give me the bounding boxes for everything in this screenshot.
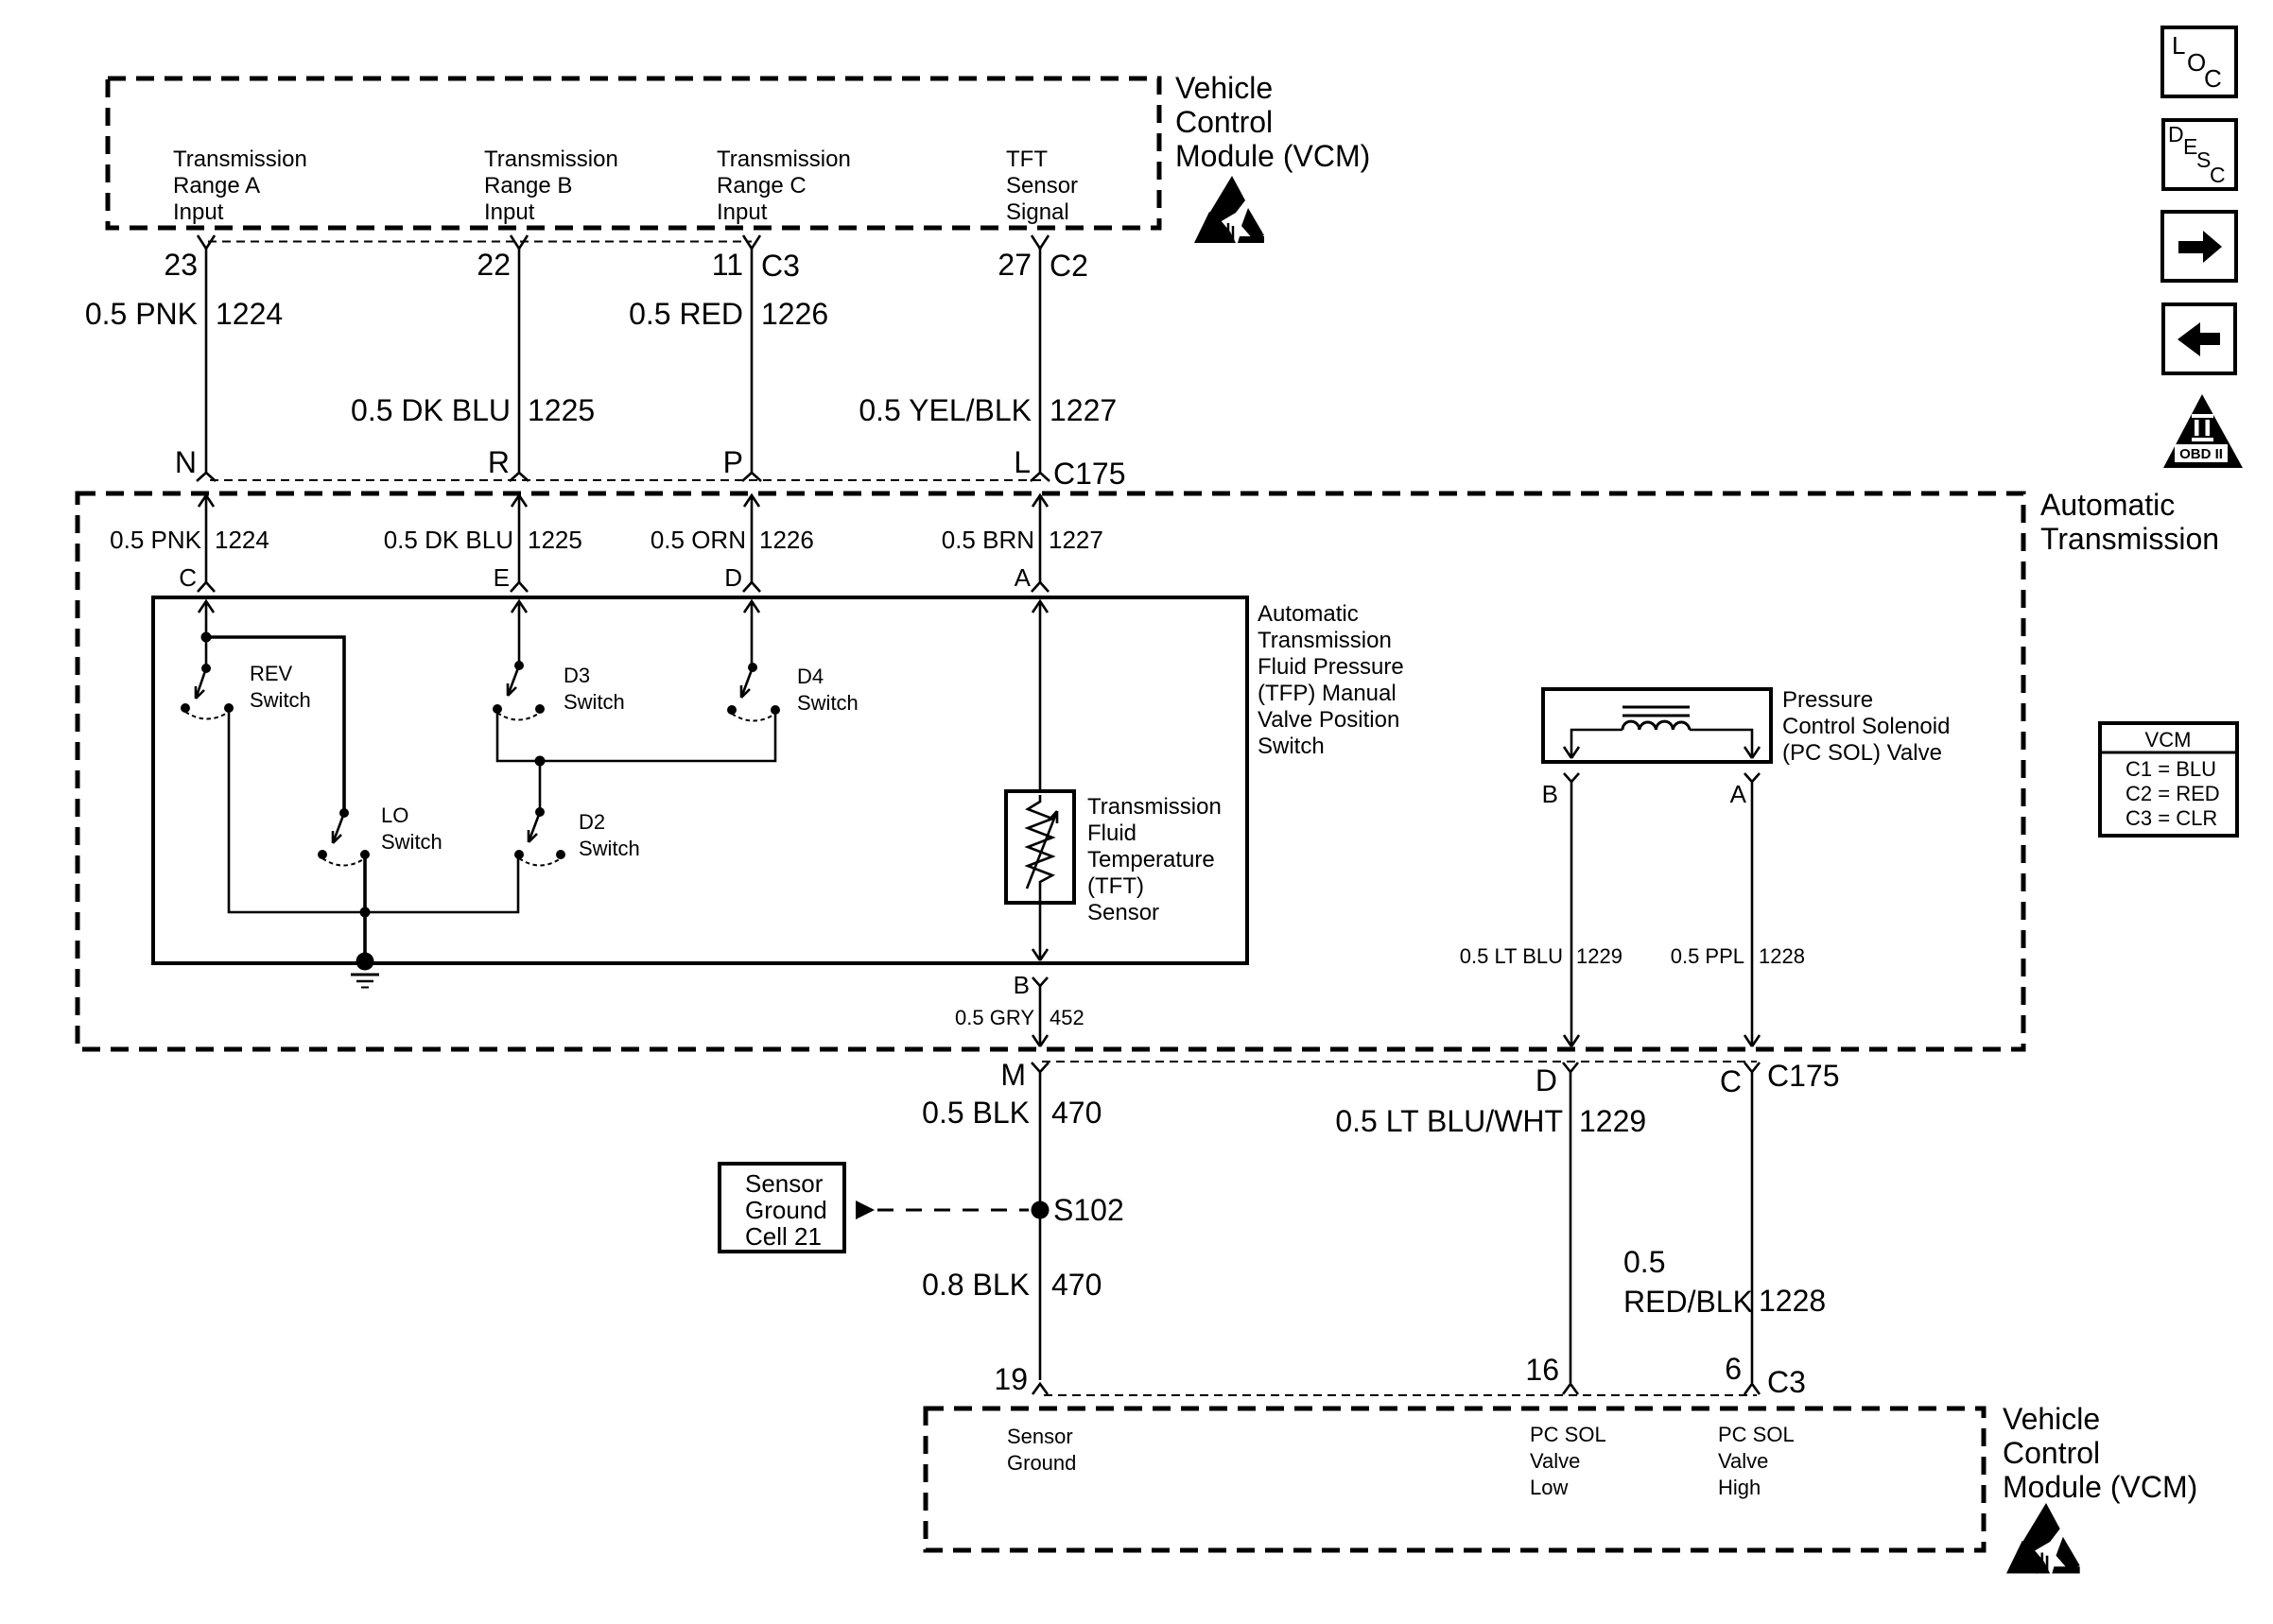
REV switch contact left (181, 703, 190, 713)
svg-text:Control: Control (1175, 105, 1273, 139)
svg-text:(TFT): (TFT) (1087, 873, 1144, 899)
svg-text:Transmission: Transmission (1087, 794, 1222, 820)
svg-text:LO: LO (381, 803, 408, 827)
wire arrow into Automatic Transmission pin C (199, 495, 214, 582)
connector C175 dashed line (210, 479, 1045, 481)
D4 switch pivot dot (748, 663, 757, 672)
svg-text:470: 470 (1051, 1268, 1102, 1302)
D4 switch blade (741, 667, 753, 698)
svg-text:C2: C2 (1050, 249, 1088, 283)
component box: PC SOL valve (1543, 689, 1771, 762)
module box: Vehicle Control Module (VCM) top (108, 78, 1159, 228)
wire: LO right contact to ground (363, 855, 367, 960)
svg-text:M: M (1000, 1058, 1026, 1092)
connector fork pin 23 (198, 235, 215, 249)
svg-text:Switch: Switch (250, 688, 311, 712)
svg-text:P: P (723, 445, 743, 479)
svg-text:Range A: Range A (173, 173, 260, 199)
connector fork B (1032, 977, 1048, 986)
connector fork M (1032, 1063, 1049, 1072)
svg-text:1226: 1226 (761, 297, 828, 331)
svg-text:0.5 BRN: 0.5 BRN (942, 526, 1034, 554)
wire arrow inside box pin A (1032, 601, 1048, 791)
wire 1228 inside AT with down arrow (1744, 782, 1760, 1046)
svg-text:Range B: Range B (484, 173, 572, 199)
svg-text:Vehicle: Vehicle (1175, 71, 1273, 105)
svg-text:1227: 1227 (1050, 393, 1117, 427)
wire 452 stem with down arrow at AT boundary (1032, 986, 1048, 1046)
svg-text:0.5 PNK: 0.5 PNK (110, 526, 201, 554)
svg-text:Sensor: Sensor (1006, 173, 1078, 199)
wire arrow inside box pin C (199, 601, 214, 637)
svg-text:0.5 PPL: 0.5 PPL (1671, 944, 1744, 968)
svg-text:Switch: Switch (579, 837, 640, 860)
svg-text:C: C (2210, 163, 2226, 187)
LO switch pivot dot (339, 808, 349, 818)
PC SOL valve coil (1622, 721, 1690, 730)
svg-text:Transmission: Transmission (173, 147, 307, 172)
connector fork pin 19 (1032, 1384, 1048, 1394)
svg-text:PC SOL: PC SOL (1530, 1423, 1606, 1446)
svg-text:Transmission: Transmission (717, 147, 851, 172)
D3 switch pivot dot (514, 661, 524, 670)
svg-text:Switch: Switch (797, 691, 859, 715)
wire 1228 lower segment (1751, 1072, 1754, 1383)
svg-text:D3: D3 (564, 664, 590, 687)
svg-text:High: High (1718, 1476, 1761, 1499)
connector fork E at TFP switch (511, 582, 528, 592)
LO switch dashed arc (322, 858, 365, 866)
REV switch contact right (224, 703, 234, 713)
connector fork C at TFP switch (198, 582, 215, 592)
svg-text:C: C (179, 563, 197, 592)
svg-text:11: 11 (712, 248, 743, 282)
svg-text:C3: C3 (1767, 1365, 1806, 1399)
svg-text:22: 22 (477, 248, 511, 282)
svg-text:0.5: 0.5 (1623, 1245, 1665, 1279)
label: LO Switch (381, 803, 442, 854)
svg-text:452: 452 (1050, 1006, 1084, 1029)
svg-text:C3: C3 (761, 249, 800, 283)
svg-text:S102: S102 (1053, 1193, 1124, 1227)
module box: Vehicle Control Module (VCM) bottom (926, 1408, 1984, 1550)
svg-text:C: C (2204, 64, 2222, 93)
D4 switch contact left (727, 705, 737, 715)
svg-text:D: D (724, 563, 742, 592)
svg-text:D2: D2 (579, 810, 605, 834)
label: D3 Switch (564, 664, 625, 714)
svg-text:D: D (1536, 1063, 1557, 1097)
wire 1227 VCM segment (1039, 249, 1042, 473)
connector fork pin 22 (511, 235, 528, 249)
icon: OBD II triangle (2163, 394, 2243, 468)
svg-text:Automatic: Automatic (2040, 488, 2175, 522)
legend entries (2126, 757, 2220, 830)
svg-text:0.5 LT BLU/WHT: 0.5 LT BLU/WHT (1335, 1104, 1563, 1138)
svg-text:Input: Input (717, 199, 768, 225)
svg-text:Input: Input (173, 199, 224, 225)
icon: LOC box (2162, 27, 2236, 96)
svg-text:23: 23 (164, 248, 198, 282)
connector fork L at C175 (1031, 473, 1050, 481)
svg-text:Vehicle: Vehicle (2003, 1402, 2100, 1436)
svg-text:R: R (488, 445, 510, 479)
icon: DESC box (2163, 120, 2236, 189)
svg-text:Switch: Switch (564, 690, 625, 714)
svg-text:Ground: Ground (1007, 1451, 1076, 1475)
svg-text:1227: 1227 (1049, 526, 1103, 554)
PC SOL valve core lines (1622, 707, 1690, 716)
LO switch blade (333, 813, 344, 843)
svg-text:Sensor: Sensor (745, 1169, 824, 1198)
junction node on link (535, 756, 546, 767)
svg-text:0.5 LT BLU: 0.5 LT BLU (1460, 944, 1563, 968)
connector fork pin 16 (1563, 1384, 1578, 1394)
svg-text:Low: Low (1530, 1476, 1568, 1499)
D2 switch contact right (556, 850, 565, 859)
svg-text:0.5 DK BLU: 0.5 DK BLU (384, 526, 513, 554)
connector C3 dashed line below VCM box (208, 241, 752, 243)
svg-text:Module (VCM): Module (VCM) (2003, 1470, 2197, 1504)
connector fork valve A (1744, 773, 1760, 782)
icon: ESD symbol top (1194, 176, 1264, 243)
junction node ground run (360, 907, 371, 918)
svg-text:19: 19 (994, 1362, 1028, 1396)
svg-text:1225: 1225 (528, 393, 595, 427)
junction node REV top (201, 632, 212, 643)
svg-text:RED/BLK: RED/BLK (1623, 1285, 1753, 1319)
REV switch dashed arc (185, 712, 229, 719)
connector fork R at C175 (510, 473, 529, 481)
D4 switch contact right (771, 705, 780, 715)
D3 switch contact right (535, 704, 545, 714)
svg-text:TFT: TFT (1006, 147, 1048, 172)
svg-text:0.8 BLK: 0.8 BLK (922, 1268, 1030, 1302)
label: PC SOL Valve Low (1530, 1423, 1606, 1499)
svg-text:Temperature: Temperature (1087, 847, 1215, 872)
ground dot (356, 953, 374, 971)
svg-text:0.5 YEL/BLK: 0.5 YEL/BLK (859, 393, 1032, 427)
connector fork pin 6 (1744, 1384, 1760, 1394)
svg-text:C1 = BLU: C1 = BLU (2126, 757, 2216, 781)
svg-text:470: 470 (1051, 1096, 1102, 1130)
label: REV Switch (250, 662, 311, 712)
svg-text:D4: D4 (797, 665, 824, 688)
TFT sensor thermistor zigzag (1028, 795, 1052, 903)
wire arrow into Automatic Transmission pin E (512, 495, 527, 582)
connector fork A at TFP switch (1032, 582, 1049, 592)
svg-text:B: B (1542, 780, 1558, 808)
D2 switch contact left (514, 850, 524, 859)
svg-text:REV: REV (250, 662, 293, 685)
svg-text:1229: 1229 (1576, 944, 1622, 968)
svg-text:0.5 ORN: 0.5 ORN (651, 526, 746, 554)
pin label: Transmission Range A Input (173, 147, 307, 225)
svg-text:Switch: Switch (1258, 734, 1325, 759)
svg-text:1228: 1228 (1759, 944, 1805, 968)
label: Sensor Ground Cell 21 (745, 1169, 827, 1251)
splice S102 dot (1032, 1201, 1050, 1219)
svg-text:1229: 1229 (1579, 1104, 1646, 1138)
wire arrow inside box pin E (512, 601, 527, 665)
svg-text:Switch: Switch (381, 830, 442, 854)
svg-text:0.5 DK BLU: 0.5 DK BLU (351, 393, 511, 427)
svg-text:L: L (2172, 31, 2185, 60)
wire: REV right contact to D2 left contact bottom run (229, 708, 518, 912)
wire 1229 lower segment (1570, 1072, 1572, 1383)
label: D2 Switch (579, 810, 640, 860)
svg-text:16: 16 (1525, 1353, 1559, 1387)
svg-text:Valve Position: Valve Position (1258, 707, 1399, 733)
svg-text:OBD II: OBD II (2179, 446, 2223, 462)
connector fork pin 11 (743, 235, 760, 249)
D4 switch dashed arc (732, 714, 775, 721)
wire 470 upper segment (1039, 1072, 1042, 1380)
component box: Sensor Ground Cell 21 (720, 1164, 844, 1252)
svg-text:Sensor: Sensor (1087, 900, 1159, 925)
reference arrow to S102 (856, 1201, 875, 1219)
REV switch pivot dot (201, 664, 211, 673)
connector fork C (1744, 1063, 1760, 1072)
svg-text:(TFP) Manual: (TFP) Manual (1258, 681, 1397, 706)
connector fork P at C175 (742, 473, 761, 481)
svg-text:PC SOL: PC SOL (1718, 1423, 1795, 1446)
svg-text:Cell 21: Cell 21 (745, 1222, 822, 1251)
svg-text:Transmission: Transmission (484, 147, 618, 172)
LO switch contact left (318, 850, 327, 859)
svg-text:Input: Input (484, 199, 535, 225)
component box: TFT sensor (1006, 791, 1074, 903)
D3 switch dashed arc (497, 713, 540, 720)
wire: D3 left contact to D4 right contact link (497, 709, 775, 761)
svg-text:Fluid: Fluid (1087, 821, 1136, 846)
svg-text:Transmission: Transmission (2040, 522, 2219, 556)
svg-text:Valve: Valve (1530, 1449, 1580, 1473)
svg-text:Automatic: Automatic (1258, 601, 1359, 627)
TFT sensor arrow (1027, 811, 1057, 889)
svg-text:0.5 GRY: 0.5 GRY (955, 1006, 1034, 1029)
svg-text:6: 6 (1725, 1352, 1742, 1386)
wire 1226 VCM segment (751, 249, 754, 473)
wire: link to D2 pivot (539, 761, 542, 812)
dashed reference line to S102 (877, 1209, 1029, 1212)
REV switch blade (196, 668, 206, 699)
svg-text:N: N (175, 445, 197, 479)
PC SOL valve leads with arrows (1564, 730, 1622, 758)
legend divider (2100, 752, 2237, 754)
legend box VCM (2100, 723, 2237, 836)
svg-text:C175: C175 (1053, 457, 1126, 491)
svg-text:VCM: VCM (2145, 728, 2192, 752)
component box: TFP manual valve position switch (153, 597, 1247, 963)
wire arrow into Automatic Transmission pin D (744, 495, 759, 582)
svg-text:Fluid Pressure: Fluid Pressure (1258, 654, 1404, 680)
svg-text:Valve: Valve (1718, 1449, 1768, 1473)
label: D4 Switch (797, 665, 859, 715)
wire 1224 VCM segment (205, 249, 208, 473)
connector fork D (1563, 1063, 1578, 1072)
icon: left arrow box (2163, 304, 2235, 373)
svg-text:Control: Control (2003, 1436, 2100, 1470)
label: PC SOL Valve High (1718, 1423, 1795, 1499)
svg-text:Signal: Signal (1006, 199, 1069, 225)
svg-text:L: L (1014, 445, 1031, 479)
D2 switch dashed arc (519, 858, 561, 866)
pin label: TFT Sensor Signal (1006, 147, 1078, 225)
wire 1225 VCM segment (518, 249, 521, 473)
wire: REV pivot stem (205, 637, 208, 668)
wire arrow inside box pin D (744, 601, 759, 667)
connector C175 dashed line lower (1042, 1061, 1757, 1063)
label: Automatic Transmission (2040, 488, 2219, 556)
svg-text:1224: 1224 (215, 526, 269, 554)
svg-text:1226: 1226 (759, 526, 814, 554)
wire arrow into Automatic Transmission pin A (1032, 495, 1048, 582)
svg-text:1228: 1228 (1759, 1284, 1826, 1318)
wire: REV junction to LO branch (206, 637, 344, 813)
svg-text:C3 = CLR: C3 = CLR (2126, 806, 2217, 830)
pin label: Transmission Range C Input (717, 147, 851, 225)
svg-text:1224: 1224 (216, 297, 283, 331)
connector fork valve B (1564, 773, 1579, 782)
icon: ESD symbol bottom (2006, 1503, 2080, 1574)
D2 switch pivot dot (535, 807, 545, 817)
svg-text:C175: C175 (1767, 1059, 1840, 1093)
D3 switch contact left (493, 704, 502, 714)
svg-text:Transmission: Transmission (1258, 628, 1392, 653)
label: Sensor Ground (1007, 1425, 1076, 1475)
LO switch contact right (360, 850, 370, 859)
svg-text:1225: 1225 (528, 526, 582, 554)
svg-text:Module (VCM): Module (VCM) (1175, 139, 1370, 173)
svg-text:Range C: Range C (717, 173, 807, 199)
wire label 0.5 RED/BLK 1228 (1623, 1245, 1826, 1319)
svg-text:0.5 BLK: 0.5 BLK (922, 1096, 1030, 1130)
svg-text:Control Solenoid: Control Solenoid (1782, 714, 1950, 739)
label: Vehicle Control Module (VCM) top right (1175, 71, 1370, 173)
svg-text:C: C (1720, 1064, 1742, 1098)
connector fork D at TFP switch (743, 582, 760, 592)
label: Transmission Fluid Temperature (TFT) Sensor (1087, 794, 1222, 925)
D2 switch blade (529, 812, 540, 842)
svg-text:D: D (2168, 122, 2184, 147)
svg-text:A: A (1015, 563, 1032, 592)
connector C3 dashed line bottom (1044, 1394, 1757, 1396)
label: Pressure Control Solenoid (PC SOL) Valve (1782, 687, 1950, 766)
icon: right arrow box (2162, 212, 2236, 281)
svg-text:27: 27 (998, 248, 1032, 282)
svg-text:0.5 RED: 0.5 RED (629, 297, 743, 331)
svg-text:Ground: Ground (745, 1196, 827, 1224)
svg-text:Sensor: Sensor (1007, 1425, 1073, 1448)
pin label: Transmission Range B Input (484, 147, 618, 225)
connector fork pin 27 (1032, 235, 1049, 249)
svg-text:0.5 PNK: 0.5 PNK (85, 297, 198, 331)
D3 switch blade (508, 665, 519, 696)
wire 1229 inside AT with down arrow (1564, 782, 1579, 1046)
svg-text:A: A (1730, 780, 1747, 808)
svg-text:C2 = RED: C2 = RED (2126, 782, 2220, 805)
label: Automatic Transmission Fluid Pressure (TFP) Manual Valve Position Switch (1258, 601, 1404, 759)
label: Vehicle Control Module (VCM) bottom right (2003, 1402, 2197, 1504)
svg-text:E: E (494, 563, 510, 592)
svg-text:Pressure: Pressure (1782, 687, 1873, 713)
svg-text:B: B (1014, 971, 1030, 999)
ground symbol hatches (351, 975, 379, 988)
svg-text:(PC SOL) Valve: (PC SOL) Valve (1782, 740, 1942, 766)
module box: Automatic Transmission (78, 493, 2023, 1049)
wire: TFT sensor down arrow to box edge (1032, 903, 1048, 960)
connector fork N at C175 (197, 473, 216, 481)
